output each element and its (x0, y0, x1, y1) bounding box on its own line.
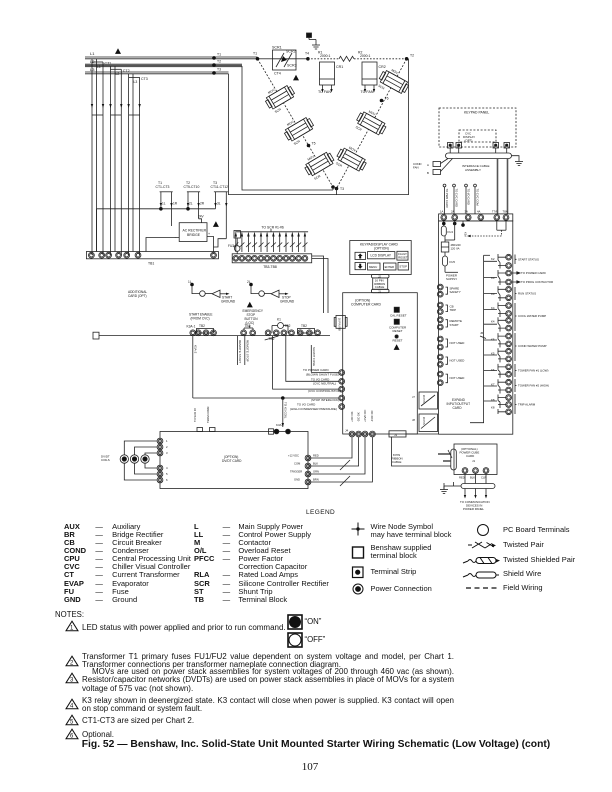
relay coil K1 (272, 318, 288, 333)
svg-text:CT2: CT2 (123, 69, 130, 73)
svg-text:1A: 1A (440, 210, 444, 214)
TB2 terminal K3A-1 (187, 325, 198, 399)
svg-text:(OPT): (OPT) (465, 139, 473, 143)
power stack assembly 6 (right diagonal lower) (333, 143, 370, 178)
node dot mid left diagonal (307, 144, 311, 148)
svg-text:TO K3 COIL: TO K3 COIL (284, 402, 288, 419)
svg-text:4A: 4A (477, 210, 481, 214)
svg-text:POWER PANEL: POWER PANEL (463, 507, 484, 511)
svg-text:J3: J3 (394, 433, 397, 437)
bus L3 (double line) (85, 67, 229, 74)
svg-text:3L: 3L (217, 202, 221, 206)
svg-text:TB2: TB2 (301, 324, 307, 328)
power cube shield wire (444, 474, 495, 489)
note triangle 6 (65, 728, 79, 740)
svg-text:TB1: TB1 (148, 262, 154, 266)
warning triangle above bus L1 (115, 48, 121, 54)
svg-text:TB2: TB2 (199, 324, 205, 328)
computer card (option) (343, 293, 418, 434)
svg-text:TRIP: TRIP (450, 308, 457, 312)
I/O card top terminal strip (439, 210, 513, 221)
svg-text:NOT USED: NOT USED (450, 341, 465, 345)
LEGEND title (306, 509, 335, 516)
svg-text:LCD DISPLAY: LCD DISPLAY (371, 254, 392, 258)
computer card bottom terminals (345, 410, 375, 437)
svg-text:J6: J6 (480, 331, 484, 335)
shield drops with arrows (464, 489, 487, 499)
reset LED (393, 335, 403, 343)
note triangle 1 (65, 620, 79, 632)
svg-text:L1: L1 (97, 65, 101, 69)
svg-text:CT5-CT10: CT5-CT10 (184, 185, 200, 189)
svg-text:16 PIN: 16 PIN (422, 417, 426, 425)
ribbon cable 8 pin label (392, 453, 403, 464)
svg-text:K2: K2 (491, 257, 495, 261)
note triangle 5 (65, 714, 79, 726)
svg-text:K1: K1 (277, 318, 281, 322)
power stack assembly 3 (left diagonal lower) (301, 147, 338, 182)
svg-text:1L: 1L (162, 202, 166, 206)
svg-text:ORN: ORN (313, 470, 319, 474)
field wiring symbol (466, 587, 498, 589)
svg-text:REMOTE STOP: REMOTE STOP (245, 340, 249, 362)
computer card left edge terminals (339, 370, 345, 410)
relay contacts and terminals (19) (506, 254, 512, 414)
legend column 1 (64, 523, 191, 605)
svg-text:(CVC NEUTRAL): (CVC NEUTRAL) (313, 382, 336, 386)
DV/DT coils (101, 455, 149, 464)
option card note (left) (128, 290, 147, 298)
svg-text:TOWER FAN #1 (LOW): TOWER FAN #1 (LOW) (518, 369, 548, 373)
keypad panel terminals (448, 143, 510, 149)
DV/DT left terminals (157, 438, 168, 483)
svg-text:COMPUTER CARD: COMPUTER CARD (351, 303, 382, 307)
svg-text:NOT USED: NOT USED (450, 359, 465, 363)
svg-text:6: 6 (166, 478, 168, 482)
svg-text:J1: J1 (472, 459, 475, 463)
svg-text:CAL RESET: CAL RESET (390, 313, 407, 317)
I/O relay output column (470, 255, 490, 422)
node dot T4 after MOV (306, 57, 310, 61)
svg-text:GND: GND (294, 478, 300, 482)
svg-text:(STOP INTERLOCK): (STOP INTERLOCK) (311, 398, 339, 402)
terminal strip TB1 (86, 252, 218, 266)
left diagonal wire (dashed) (258, 59, 334, 187)
AC rectifier bridge (175, 223, 211, 242)
svg-text:5: 5 (166, 472, 168, 476)
DV/DT top terminals to SCR (193, 407, 215, 432)
svg-text:K8: K8 (491, 406, 495, 410)
field wire stubs with rotated labels (443, 184, 479, 214)
svg-text:TO CVC CARD: TO CVC CARD (455, 189, 459, 208)
svg-text:T5: T5 (312, 142, 316, 146)
svg-text:K3A-2: K3A-2 (193, 345, 197, 354)
sheath ground (512, 156, 520, 158)
convergence node dots (331, 185, 335, 189)
figure caption (10, 739, 612, 750)
control wire row TB2 (99, 335, 330, 337)
svg-text:3: 3 (166, 451, 168, 455)
keypad/display card (option) (350, 241, 411, 275)
note triangle 2 (65, 655, 79, 667)
shield wire symbol (463, 572, 499, 578)
power stack assembly 5 (right diagonal mid) (353, 106, 390, 141)
svg-text:NOT USED: NOT USED (450, 376, 465, 380)
svg-text:MENU: MENU (369, 265, 377, 269)
legend symbols column B (462, 521, 504, 591)
svg-text:BRIDGE: BRIDGE (187, 233, 201, 237)
svg-text:(FROM CVC): (FROM CVC) (191, 316, 210, 320)
svg-text:DV/DT CARD: DV/DT CARD (222, 459, 242, 463)
svg-text:+DC OK: +DC OK (350, 411, 354, 422)
svg-text:RESET: RESET (398, 256, 408, 260)
CT common wire (97, 207, 216, 252)
svg-text:T8A: T8A (503, 210, 508, 214)
rectifier positive wire to strip terminal (207, 237, 214, 253)
gate leads with arrows (12) (234, 232, 308, 252)
arrowheads on phase drops (91, 104, 141, 108)
svg-text:COOL WATER PUMP: COOL WATER PUMP (518, 314, 546, 318)
svg-text:SCR2: SCR2 (286, 50, 296, 54)
power stack assembly 1 (left diagonal upper) (262, 80, 299, 115)
svg-text:FAN: FAN (413, 166, 419, 170)
gate terminal bar TB3 (232, 254, 312, 269)
svg-text:SCR1: SCR1 (272, 46, 282, 50)
svg-text:CARD: CARD (466, 454, 474, 458)
svg-text:CARD (OPT): CARD (OPT) (128, 294, 147, 298)
benshaw terminal block symbol (353, 547, 364, 558)
svg-text:J8: J8 (412, 418, 415, 422)
svg-text:REMOTE START: REMOTE START (238, 340, 242, 363)
power connection symbol (353, 584, 363, 594)
note triangle 3 (65, 672, 79, 684)
bus L1 (double line) (85, 51, 258, 59)
power cube sheath (438, 449, 456, 470)
wire TB2 to computer card terminal 2 (273, 336, 339, 390)
CT secondary tap T1 (CT1-CT3) (156, 181, 178, 226)
svg-text:16 PIN RIB: 16 PIN RIB (338, 318, 342, 331)
svg-text:STOP: STOP (399, 265, 407, 269)
svg-text:TRIGGER: TRIGGER (290, 470, 302, 474)
svg-text:T3: T3 (340, 187, 344, 191)
svg-text:TB2: TB2 (285, 324, 291, 328)
svg-text:L3: L3 (90, 67, 95, 72)
svg-text:T1: T1 (253, 52, 257, 56)
K3 coil feed wire (282, 398, 288, 427)
node dot mid right diagonal (380, 99, 384, 103)
wire into MOV (258, 58, 273, 60)
svg-text:K3: K3 (491, 276, 495, 280)
svg-text:BLK: BLK (470, 476, 475, 480)
svg-text:RUN STATUS: RUN STATUS (518, 292, 536, 296)
CT2 loop phase B (111, 66, 130, 255)
svg-text:TO SCR #2: TO SCR #2 (193, 408, 197, 422)
svg-text:2R: 2R (200, 202, 205, 206)
LED off symbol (287, 632, 303, 648)
twisted shielded pair symbol (463, 558, 500, 564)
warning triangle emergency stop (247, 302, 253, 308)
svg-text:A: A (427, 163, 429, 167)
wires computer bottom to dvdt card (309, 437, 353, 458)
wire node symbol (352, 523, 365, 536)
svg-text:FU4: FU4 (448, 230, 454, 234)
DV/DT card (option) (160, 432, 308, 489)
wire TB2 to computer card terminal 3 (286, 336, 339, 382)
svg-text:L2: L2 (116, 72, 120, 76)
svg-text:BLK: BLK (313, 462, 318, 466)
svg-text:L1: L1 (90, 51, 95, 56)
ribbon cable 16 pin (computer left edge) (334, 316, 347, 332)
svg-text:RED: RED (459, 476, 465, 480)
CT secondary tap T3 (CT11-CT12) (211, 181, 229, 239)
node dot T2 top-right (405, 57, 409, 61)
svg-text:L3: L3 (134, 80, 138, 84)
stack enclosure inner wire L2 drop (242, 66, 333, 190)
dotted control run to T2 with resistor R1 (308, 51, 407, 62)
computer reset button (389, 319, 407, 333)
emergency stop button label (243, 309, 264, 325)
svg-text:−: − (175, 236, 177, 240)
wire J3 to power cube (392, 437, 452, 466)
interface cable sheath (446, 148, 512, 172)
power stack assembly 4 (right diagonal upper) (375, 65, 412, 100)
pc board terminal symbol (478, 525, 489, 536)
svg-text:CT3: CT3 (141, 77, 148, 81)
svg-text:TO CVC COM: TO CVC COM (476, 189, 480, 207)
fan relay CR1 loop (318, 62, 343, 94)
svg-text:+CVC DC: +CVC DC (363, 410, 367, 422)
K3A feedback dashed wire (461, 221, 506, 237)
svg-text:K3A: K3A (276, 423, 282, 427)
stack enclosure outer wire L3 drop (229, 59, 409, 195)
svg-text:+: + (208, 232, 210, 236)
svg-text:2L: 2L (189, 202, 193, 206)
keypad wires down to strip (497, 159, 499, 214)
svg-text:(HIGH CONDENSER PRESSURE): (HIGH CONDENSER PRESSURE) (290, 407, 337, 411)
svg-text:16 PIN: 16 PIN (422, 395, 426, 403)
connector J1 computer top (371, 289, 389, 293)
svg-text:SUPPLY: SUPPLY (446, 277, 457, 281)
svg-text:TOWER FAN #2 (HIGH): TOWER FAN #2 (HIGH) (518, 384, 549, 388)
svg-text:BRN: BRN (313, 478, 319, 482)
svg-text:TO POWER CARD: TO POWER CARD (303, 368, 329, 372)
cable pair to terminal blocks (441, 159, 449, 164)
control drops with rotated labels (238, 336, 250, 365)
svg-text:(OPTION): (OPTION) (374, 247, 389, 251)
svg-text:RESET: RESET (393, 339, 403, 343)
svg-text:TB3-TB8: TB3-TB8 (263, 265, 277, 269)
ground (top, system) (307, 33, 317, 42)
terminal annotations (290, 368, 341, 411)
wire with rotated label to terminal 1 (311, 345, 339, 373)
svg-text:K3A-1: K3A-1 (187, 325, 196, 329)
svg-text:TO POWER CARD: TO POWER CARD (521, 271, 546, 275)
svg-text:KEYPAD PANEL: KEYPAD PANEL (464, 111, 489, 115)
power stack assembly 2 (left diagonal mid) (281, 112, 318, 147)
svg-text:TB2: TB2 (245, 324, 251, 328)
CT1 loop phase A (92, 59, 111, 255)
long control wire to terminal 4 (193, 397, 339, 399)
svg-text:2000:1: 2000:1 (360, 54, 370, 58)
svg-text:ASSEMBLY: ASSEMBLY (465, 168, 481, 172)
warning triangle in computer card (394, 344, 400, 350)
svg-text:T4: T4 (305, 52, 309, 56)
TB2 contact group 2 (e-stop) (241, 324, 256, 335)
svg-text:COND WATER PUMP: COND WATER PUMP (518, 344, 547, 348)
svg-text:COM: COM (294, 462, 301, 466)
svg-text:120 VA: 120 VA (451, 247, 460, 251)
svg-text:-CVC DC: -CVC DC (370, 410, 374, 422)
svg-text:RED: RED (313, 454, 319, 458)
svg-text:1R: 1R (173, 202, 178, 206)
svg-text:2000:1: 2000:1 (320, 54, 330, 58)
svg-text:COILS: COILS (101, 458, 110, 462)
output annotations right of I/O card (512, 255, 520, 415)
ground at power cube (440, 486, 448, 494)
svg-text:K5: K5 (491, 338, 495, 342)
svg-text:1: 1 (166, 439, 168, 443)
svg-text:J7: J7 (412, 395, 415, 399)
CT3 loop phase C (129, 74, 148, 255)
svg-text:4: 4 (166, 466, 168, 470)
svg-text:K3: K3 (491, 292, 495, 296)
rectifier negative wire to strip (146, 238, 179, 252)
svg-text:+12 VDC: +12 VDC (288, 454, 299, 458)
svg-text:ENTER: ENTER (385, 265, 394, 269)
svg-text:TO FAN: TO FAN (318, 90, 331, 94)
control power fuse drop (228, 231, 240, 254)
note triangle 4 (65, 698, 79, 710)
svg-text:3A: 3A (465, 210, 469, 214)
TB2 contact group 5 (297, 324, 320, 335)
svg-text:TO SCR #1-#6: TO SCR #1-#6 (261, 226, 283, 230)
svg-text:T6: T6 (385, 97, 389, 101)
svg-text:SAFETY: SAFETY (450, 290, 461, 294)
svg-text:K3A: K3A (464, 232, 468, 237)
DV/DT right terminals (288, 454, 350, 487)
svg-text:SCR3: SCR3 (287, 64, 297, 68)
svg-text:START STATUS: START STATUS (518, 257, 539, 261)
svg-text:TO FAN: TO FAN (361, 90, 374, 94)
slash on wire below row (265, 336, 279, 340)
svg-text:(BLOWN SHUNT FUSE): (BLOWN SHUNT FUSE) (306, 373, 339, 377)
node dot at left diagonal start (256, 57, 260, 61)
svg-text:CT1: CT1 (105, 62, 112, 66)
legend symbols column A (346, 521, 370, 599)
cal reset button (390, 307, 407, 317)
coil wiring harness (124, 441, 157, 480)
page number (4, 761, 612, 773)
CT secondary tap T2 (CT5-CT10) (184, 181, 205, 219)
svg-text:GROUND: GROUND (221, 299, 236, 303)
connector J3 computer bottom (389, 431, 406, 437)
svg-text:CARD: CARD (453, 406, 463, 410)
node dots on buses at x=214 (212, 56, 216, 60)
legend column 2 (194, 523, 329, 605)
svg-text:GROUND: GROUND (280, 299, 295, 303)
svg-text:(CVC CONTROL/STOP): (CVC CONTROL/STOP) (308, 389, 341, 393)
NOTES heading (55, 610, 84, 619)
svg-text:T1: T1 (217, 53, 221, 57)
svg-text:24V: 24V (198, 215, 205, 219)
LED on symbol (287, 614, 303, 630)
gate bundle bracket wire (235, 231, 308, 233)
right diagonal wire (dashed) (337, 59, 407, 189)
stop enable sensor circuit (247, 280, 295, 303)
keypad panel (field, dashed) (439, 108, 516, 147)
svg-text:SHUNT FUSE: SHUNT FUSE (312, 347, 316, 366)
svg-text:START: START (450, 323, 459, 327)
ribbon connectors computer to I/O (412, 392, 438, 432)
svg-text:K6: K6 (491, 368, 495, 372)
MOV/SCR block on L1 run (272, 46, 297, 76)
svg-text:CT4: CT4 (274, 72, 281, 76)
svg-text:RESET: RESET (393, 329, 403, 333)
svg-text:TERM CONN: TERM CONN (206, 407, 210, 423)
svg-text:TRIP ALARM: TRIP ALARM (518, 403, 536, 407)
power cube card (454, 444, 497, 480)
svg-text:T7A: T7A (492, 210, 497, 214)
svg-text:CT1-CT3: CT1-CT3 (156, 185, 170, 189)
expand I/O card body (439, 221, 513, 434)
svg-text:T3: T3 (217, 68, 221, 72)
svg-text:L2: L2 (90, 59, 95, 64)
K3A relay on DV/DT card (269, 423, 291, 434)
twisted pair symbol (468, 542, 496, 548)
svg-text:J4: J4 (345, 429, 349, 433)
svg-text:FU3: FU3 (228, 244, 234, 248)
warning triangle near rectifier (213, 221, 219, 227)
TB2 contact group 4 (281, 324, 294, 335)
svg-text:FU5: FU5 (450, 260, 456, 264)
svg-text:2A: 2A (451, 210, 455, 214)
svg-text:CABLE: CABLE (392, 460, 402, 464)
power supply branch in I/O card (441, 221, 461, 281)
svg-text:K4: K4 (491, 320, 495, 324)
TB2 contact group 1 (195, 324, 216, 335)
tap 3R return wire (214, 239, 227, 247)
fan relay CR2 loop (361, 62, 386, 94)
svg-text:T2: T2 (410, 54, 414, 58)
svg-text:CR1: CR1 (336, 65, 343, 69)
svg-text:-DC OK: -DC OK (356, 412, 360, 422)
svg-text:2: 2 (166, 445, 168, 449)
svg-text:B: B (427, 171, 429, 175)
svg-text:CT11-CT12: CT11-CT12 (211, 185, 229, 189)
svg-text:AC RECTIFIER: AC RECTIFIER (183, 229, 207, 233)
connector J2 keypad (371, 275, 389, 279)
ribbon cable 16 pin (keypad-computer) (373, 278, 388, 289)
wire tap T2R to rectifier (199, 219, 202, 223)
svg-text:TO I/O CARD: TO I/O CARD (467, 189, 471, 205)
I/O card left input terminals (437, 284, 447, 385)
TB2 contact group 3 (265, 330, 279, 341)
start enable sensor circuit (188, 280, 236, 320)
bus L2 (thick) (85, 59, 242, 66)
wire bar to ribbon cable (312, 256, 324, 313)
svg-text:T2: T2 (217, 60, 221, 64)
svg-text:TO PWR CARD: TO PWR CARD (445, 189, 449, 208)
terminal strip symbol (353, 567, 364, 578)
svg-text:CR2: CR2 (379, 65, 386, 69)
CT pair tie bars (92, 114, 140, 116)
svg-text:TO PROG CONTACTOR: TO PROG CONTACTOR (521, 280, 553, 284)
